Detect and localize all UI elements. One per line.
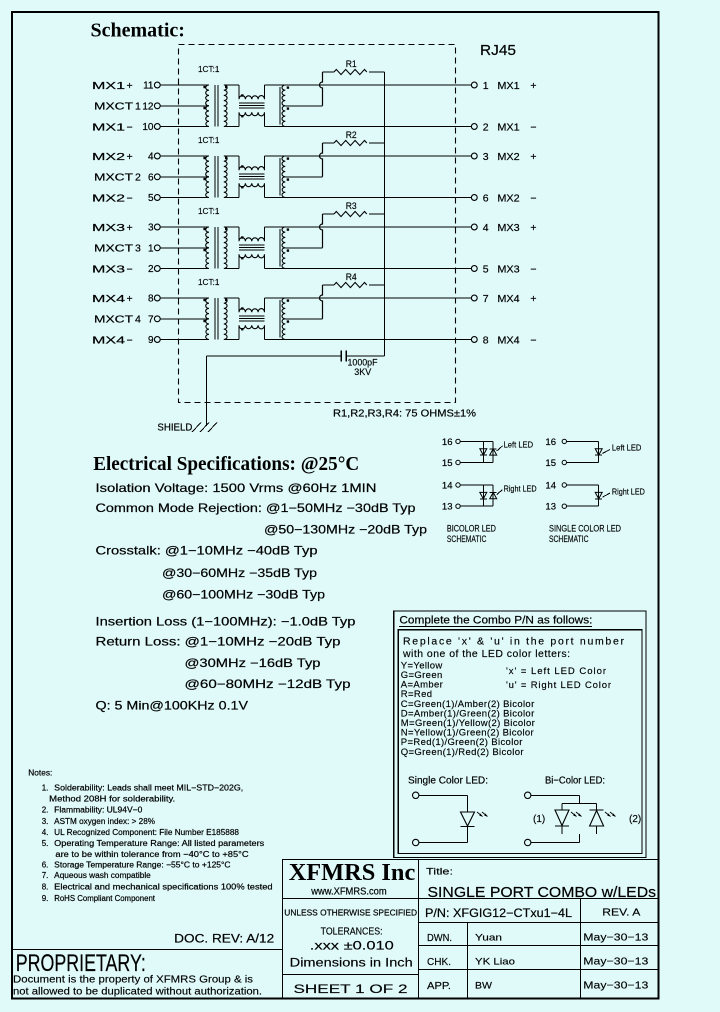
svg-text:8.: 8. bbox=[42, 883, 49, 892]
svg-text:XFMRS Inc: XFMRS Inc bbox=[289, 859, 416, 886]
svg-text:−: − bbox=[530, 121, 536, 133]
svg-text:RoHS Compliant Component: RoHS Compliant Component bbox=[54, 894, 156, 903]
svg-text:www.XFMRS.com: www.XFMRS.com bbox=[310, 887, 386, 898]
svg-text:−: − bbox=[530, 263, 536, 275]
svg-text:−: − bbox=[127, 192, 133, 204]
svg-text:Yuan: Yuan bbox=[475, 933, 502, 944]
svg-text:Replace 'x' & 'u' in the port: Replace 'x' & 'u' in the port number bbox=[403, 636, 625, 648]
svg-text:6.: 6. bbox=[42, 861, 49, 870]
svg-text:@30MHz −16dB Typ: @30MHz −16dB Typ bbox=[185, 656, 321, 670]
svg-text:R1: R1 bbox=[346, 59, 357, 69]
svg-text:MX4: MX4 bbox=[92, 293, 125, 305]
svg-text:Electrical and mechanical spec: Electrical and mechanical specifications… bbox=[54, 883, 272, 892]
svg-text:(1): (1) bbox=[533, 814, 545, 825]
svg-text:Method 208H for solderability.: Method 208H for solderability. bbox=[49, 795, 175, 804]
svg-text:R2: R2 bbox=[346, 130, 357, 140]
svg-text:are to be within tolerance fro: are to be within tolerance from −40°C to… bbox=[55, 850, 248, 859]
svg-text:BICOLOR LED: BICOLOR LED bbox=[447, 524, 496, 535]
svg-text:2: 2 bbox=[148, 264, 154, 275]
svg-text:MX3: MX3 bbox=[92, 222, 125, 234]
svg-text:Bi−Color LED:: Bi−Color LED: bbox=[545, 775, 605, 787]
svg-text:May−30−13: May−30−13 bbox=[583, 956, 648, 968]
svg-text:with one of the LED color lett: with one of the LED color letters: bbox=[402, 648, 570, 660]
svg-text:13: 13 bbox=[442, 502, 453, 513]
svg-text:(2): (2) bbox=[629, 814, 641, 825]
svg-text:Document is the property of XF: Document is the property of XFMRS Group … bbox=[13, 974, 253, 986]
svg-text:1CT:1: 1CT:1 bbox=[198, 207, 220, 216]
svg-text:'x' = Left LED Color: 'x' = Left LED Color bbox=[506, 666, 606, 677]
svg-text:CHK.: CHK. bbox=[427, 957, 451, 968]
svg-text:RJ45: RJ45 bbox=[480, 42, 516, 59]
svg-text:Isolation Voltage: 1500 Vrms: Isolation Voltage: 1500 Vrms @60Hz 1MIN bbox=[96, 481, 377, 495]
svg-text:Right LED: Right LED bbox=[612, 486, 645, 496]
svg-text:MXCT: MXCT bbox=[94, 172, 134, 184]
svg-text:'u' = Right LED Color: 'u' = Right LED Color bbox=[506, 680, 611, 691]
svg-text:Single Color LED:: Single Color LED: bbox=[408, 775, 488, 787]
svg-text:Return Loss: @1−10MHz −20dB T: Return Loss: @1−10MHz −20dB Typ bbox=[96, 635, 341, 649]
svg-text:11: 11 bbox=[143, 81, 154, 92]
svg-text:4: 4 bbox=[483, 222, 489, 234]
svg-text:DOC. REV: A/12: DOC. REV: A/12 bbox=[174, 934, 274, 946]
svg-text:+: + bbox=[127, 151, 133, 163]
svg-text:1: 1 bbox=[135, 101, 141, 113]
svg-text:Q: 5 Min@100KHz 0.1V: Q: 5 Min@100KHz 0.1V bbox=[96, 699, 249, 713]
svg-text:2: 2 bbox=[483, 121, 489, 133]
svg-text:Q=Green(1)/Red(2) Bicolor: Q=Green(1)/Red(2) Bicolor bbox=[401, 747, 524, 758]
svg-text:3KV: 3KV bbox=[354, 367, 372, 378]
svg-text:SINGLE PORT COMBO w/LEDs: SINGLE PORT COMBO w/LEDs bbox=[428, 884, 657, 901]
svg-text:1: 1 bbox=[483, 80, 489, 92]
svg-text:SINGLE COLOR LED: SINGLE COLOR LED bbox=[549, 524, 621, 535]
svg-text:MX2: MX2 bbox=[497, 151, 519, 163]
svg-text:−: − bbox=[530, 192, 536, 204]
svg-text:MX3: MX3 bbox=[92, 263, 125, 275]
svg-text:4.: 4. bbox=[42, 828, 49, 837]
svg-text:MXCT: MXCT bbox=[94, 243, 134, 255]
svg-text:15: 15 bbox=[442, 458, 453, 469]
svg-text:+: + bbox=[530, 222, 536, 234]
svg-text:Solderability: Leads shall mee: Solderability: Leads shall meet MIL−STD−… bbox=[54, 783, 243, 792]
svg-text:UNLESS OTHERWISE SPECIFIED: UNLESS OTHERWISE SPECIFIED bbox=[284, 908, 417, 918]
svg-text:R1,R2,R3,R4: 75 OHMS±1%: R1,R2,R3,R4: 75 OHMS±1% bbox=[333, 408, 476, 420]
svg-text:P/N: XFGIG12−CTxu1−4L: P/N: XFGIG12−CTxu1−4L bbox=[425, 906, 572, 920]
svg-text:9: 9 bbox=[148, 335, 154, 346]
svg-text:+: + bbox=[127, 222, 133, 234]
svg-text:MX3: MX3 bbox=[497, 222, 519, 234]
svg-text:Operating Temperature Range: A: Operating Temperature Range: All listed … bbox=[54, 839, 264, 848]
svg-text:15: 15 bbox=[545, 458, 556, 469]
svg-text:Electrical Specifications: @: Electrical Specifications: @25°C bbox=[93, 453, 359, 475]
svg-text:3: 3 bbox=[148, 223, 154, 234]
svg-text:Title:: Title: bbox=[426, 867, 453, 878]
svg-text:9.: 9. bbox=[42, 894, 49, 903]
svg-text:Dimensions in Inch: Dimensions in Inch bbox=[290, 958, 413, 970]
svg-text:6: 6 bbox=[148, 172, 154, 183]
svg-text:10: 10 bbox=[142, 122, 154, 133]
svg-text:−: − bbox=[127, 334, 133, 346]
svg-text:Left LED: Left LED bbox=[504, 440, 533, 450]
svg-text:5: 5 bbox=[148, 193, 154, 204]
svg-text:4: 4 bbox=[148, 152, 154, 163]
svg-text:ASTM oxygen index: > 28%: ASTM oxygen index: > 28% bbox=[54, 817, 155, 826]
svg-text:MX1: MX1 bbox=[497, 121, 519, 133]
svg-text:12: 12 bbox=[142, 101, 154, 112]
svg-text:1CT:1: 1CT:1 bbox=[198, 136, 220, 145]
svg-text:3: 3 bbox=[135, 243, 141, 255]
svg-text:13: 13 bbox=[545, 502, 556, 513]
svg-text:5.: 5. bbox=[42, 839, 49, 848]
svg-text:+: + bbox=[530, 293, 536, 305]
svg-text:REV. A: REV. A bbox=[602, 907, 640, 919]
svg-text:3.: 3. bbox=[42, 817, 49, 826]
svg-text:+: + bbox=[127, 80, 133, 92]
svg-text:not allowed to be duplicated w: not allowed to be duplicated without aut… bbox=[13, 986, 262, 998]
svg-text:+: + bbox=[530, 151, 536, 163]
svg-text:TOLERANCES:: TOLERANCES: bbox=[321, 926, 383, 938]
svg-text:Notes:: Notes: bbox=[28, 768, 52, 778]
svg-text:Common Mode Rejection: @1−50MH: Common Mode Rejection: @1−50MHz −30dB Ty… bbox=[96, 501, 416, 515]
svg-text:UL Recognized Component: File: UL Recognized Component: File Number E18… bbox=[54, 828, 239, 837]
svg-text:YK Liao: YK Liao bbox=[475, 957, 515, 968]
svg-text:14: 14 bbox=[442, 481, 453, 492]
svg-text:Schematic:: Schematic: bbox=[91, 20, 185, 42]
svg-text:.xxx ±0.010: .xxx ±0.010 bbox=[310, 941, 394, 953]
svg-text:1: 1 bbox=[148, 243, 154, 254]
svg-text:−: − bbox=[530, 334, 536, 346]
svg-text:5: 5 bbox=[483, 263, 489, 275]
svg-text:@50−130MHz −20dB Typ: @50−130MHz −20dB Typ bbox=[264, 523, 427, 537]
svg-text:1CT:1: 1CT:1 bbox=[198, 278, 220, 287]
svg-text:−: − bbox=[127, 263, 133, 275]
svg-text:MX1: MX1 bbox=[92, 121, 125, 133]
svg-text:Right LED: Right LED bbox=[504, 483, 537, 493]
svg-text:14: 14 bbox=[545, 481, 556, 492]
svg-text:1CT:1: 1CT:1 bbox=[198, 65, 220, 74]
svg-text:MX4: MX4 bbox=[92, 334, 125, 346]
svg-text:MX4: MX4 bbox=[497, 293, 519, 305]
svg-text:May−30−13: May−30−13 bbox=[583, 932, 648, 944]
svg-text:MX2: MX2 bbox=[92, 151, 125, 163]
svg-text:MX1: MX1 bbox=[497, 80, 519, 92]
svg-text:MX1: MX1 bbox=[92, 80, 125, 92]
svg-text:Complete the Combo P/N as foll: Complete the Combo P/N as follows: bbox=[399, 615, 592, 627]
svg-text:@60−80MHz −12dB Typ: @60−80MHz −12dB Typ bbox=[185, 677, 351, 691]
svg-text:SHIELD: SHIELD bbox=[157, 422, 192, 434]
svg-text:@60−100MHz −30dB Typ: @60−100MHz −30dB Typ bbox=[162, 588, 325, 602]
svg-text:8: 8 bbox=[148, 294, 154, 305]
svg-text:Left LED: Left LED bbox=[612, 443, 642, 453]
svg-text:+: + bbox=[127, 293, 133, 305]
svg-text:MX2: MX2 bbox=[92, 192, 125, 204]
svg-text:+: + bbox=[530, 80, 536, 92]
svg-text:SCHEMATIC: SCHEMATIC bbox=[549, 534, 589, 545]
svg-text:8: 8 bbox=[483, 334, 489, 346]
svg-text:APP.: APP. bbox=[427, 981, 451, 992]
svg-text:BW: BW bbox=[475, 981, 492, 992]
svg-text:MX3: MX3 bbox=[497, 263, 519, 275]
svg-text:Flammability: UL94V−0: Flammability: UL94V−0 bbox=[54, 806, 143, 815]
svg-text:SHEET 1 OF 2: SHEET 1 OF 2 bbox=[294, 982, 408, 996]
svg-text:3: 3 bbox=[483, 151, 489, 163]
svg-text:7: 7 bbox=[148, 314, 154, 325]
svg-text:@30−60MHz −35dB Typ: @30−60MHz −35dB Typ bbox=[162, 566, 317, 580]
svg-text:2: 2 bbox=[135, 172, 141, 184]
svg-text:−: − bbox=[127, 121, 133, 133]
svg-text:Insertion Loss (1−100MHz): −1.: Insertion Loss (1−100MHz): −1.0dB Typ bbox=[96, 615, 356, 629]
svg-text:4: 4 bbox=[135, 314, 141, 326]
svg-text:7: 7 bbox=[483, 293, 489, 305]
svg-text:MX2: MX2 bbox=[497, 192, 519, 204]
svg-text:16: 16 bbox=[442, 437, 453, 448]
svg-text:6: 6 bbox=[483, 192, 489, 204]
svg-text:SCHEMATIC: SCHEMATIC bbox=[447, 534, 487, 545]
svg-text:2.: 2. bbox=[42, 806, 49, 815]
svg-text:R4: R4 bbox=[346, 272, 357, 282]
svg-text:MX4: MX4 bbox=[497, 334, 519, 346]
svg-text:R3: R3 bbox=[346, 201, 357, 211]
svg-text:16: 16 bbox=[545, 437, 556, 448]
svg-text:Crosstalk: @1−10MHz −40dB Typ: Crosstalk: @1−10MHz −40dB Typ bbox=[96, 544, 318, 558]
svg-text:Aqueous wash compatible: Aqueous wash compatible bbox=[54, 871, 151, 880]
svg-text:MXCT: MXCT bbox=[94, 101, 134, 113]
svg-text:DWN.: DWN. bbox=[427, 933, 452, 944]
svg-text:MXCT: MXCT bbox=[94, 314, 134, 326]
svg-text:1.: 1. bbox=[42, 783, 49, 792]
svg-text:7.: 7. bbox=[42, 871, 49, 880]
svg-text:May−30−13: May−30−13 bbox=[583, 980, 648, 992]
svg-text:Storage Temperature Range: −55: Storage Temperature Range: −55°C to +125… bbox=[54, 861, 231, 870]
